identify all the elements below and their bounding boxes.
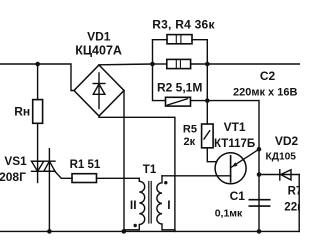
svg-text:R3, R4 36к: R3, R4 36к: [152, 17, 215, 31]
node winding I polarity dot: [164, 181, 167, 184]
winding II: [124, 178, 145, 231]
svg-text:0,1мк: 0,1мк: [215, 207, 243, 219]
resistor Rn: [33, 100, 43, 124]
svg-text:КУ208Г: КУ208Г: [0, 170, 26, 184]
svg-text:КД105: КД105: [266, 151, 297, 162]
node C1 / bottom rail: [257, 229, 262, 234]
node triac cathode / bottom rail: [47, 229, 52, 234]
wire right rail of resistor block: [206, 40, 208, 124]
svg-text:VD2: VD2: [275, 134, 299, 148]
node junction top wire / Rn branch: [35, 62, 40, 67]
wire bridge AC right corner down to rail: [123, 91, 125, 232]
node winding II polarity dot: [134, 224, 137, 227]
wire top right DC+ line: [207, 63, 300, 65]
transistor VT1 unijunction: [215, 149, 259, 184]
wire bottom rail: [0, 230, 300, 232]
wire C1 bottom to rail: [258, 206, 260, 231]
wire R5 bottom to VT1 base2: [207, 148, 216, 162]
wire Rn bottom lead to triac: [37, 123, 39, 182]
resistor R2: [166, 97, 208, 106]
diode VD2: [259, 170, 300, 180]
resistor R7 edge lead: [298, 175, 300, 232]
svg-text:22к: 22к: [284, 202, 300, 214]
svg-text:2к: 2к: [184, 136, 196, 148]
resistor R4: [153, 59, 208, 68]
svg-text:VT1: VT1: [224, 120, 246, 134]
wire triac cathode down to rail: [48, 149, 50, 232]
svg-text:R5: R5: [183, 124, 197, 136]
svg-text:VS1: VS1: [4, 154, 27, 168]
resistor R5: [202, 124, 214, 148]
svg-text:КТ117Б: КТ117Б: [214, 138, 255, 150]
wire VT1 base1 to winding I top: [162, 175, 231, 177]
wire bridge DC- to winding I bottom: [99, 116, 175, 231]
node AC wire / bottom rail: [122, 229, 127, 234]
wire bridge DC+ to left rail: [99, 63, 153, 66]
wire Rn top lead: [37, 64, 39, 100]
resistor R1: [72, 174, 97, 183]
svg-text:C2: C2: [260, 69, 276, 83]
svg-text:II: II: [130, 198, 137, 212]
wire R2 node to C1 rail: [207, 101, 259, 200]
svg-text:C1: C1: [230, 189, 246, 203]
node emitter / rail: [257, 147, 262, 152]
wire mains top-left segment: [0, 64, 75, 91]
transformer core: [148, 182, 150, 224]
resistor R3: [153, 35, 208, 44]
svg-text:R1 51: R1 51: [70, 159, 101, 171]
wire R1 right to winding II: [97, 177, 140, 179]
winding I: [157, 176, 175, 230]
svg-text:220мк x 16В: 220мк x 16В: [233, 87, 297, 99]
wire triac gate to R1: [55, 172, 72, 179]
svg-text:R2 5,1М: R2 5,1М: [157, 80, 202, 94]
wire left rail: [153, 40, 166, 101]
capacitor C1: [249, 200, 269, 206]
svg-text:КЦ407А: КЦ407А: [75, 44, 122, 58]
node right rail / R2 / R5: [205, 98, 210, 103]
svg-text:T1: T1: [143, 164, 157, 176]
node right rail / R4 / top wire: [205, 62, 210, 67]
svg-text:R7: R7: [288, 186, 300, 198]
diode bridge VD1: [74, 65, 124, 116]
thyristor VS1 triac: [32, 161, 56, 171]
svg-text:VD1: VD1: [87, 30, 111, 44]
svg-text:Rн: Rн: [14, 104, 30, 118]
node VD2 / rail: [257, 172, 262, 177]
node left rail / R4 / bridge junction: [150, 62, 155, 67]
svg-text:I: I: [167, 198, 170, 212]
